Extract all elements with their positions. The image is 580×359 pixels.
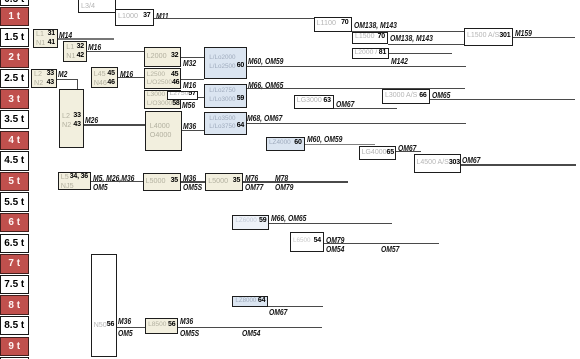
box L2000 32 [144,47,182,67]
box L2500 45 L/O2500 46 [144,68,182,89]
label M142 [391,56,408,66]
label OM5S a [183,182,202,192]
box L3000 A/S 66 [382,89,430,104]
wire M142 timeline [389,53,452,54]
box L8500 56 [145,318,178,335]
label OM67 b [398,143,416,153]
wire M68 OM67 timeline [247,123,466,124]
box L5000 35 a [143,173,182,192]
wire OM79 OM54 timeline [324,243,439,244]
box L45 45 N46 46 [91,67,118,88]
label OM77 [245,182,263,192]
box L1500 70 [352,32,388,44]
label OM54 a [326,244,344,254]
box L/Lo3500 L/Lo3750 64 [204,112,246,135]
tonnage label 1.5 t [0,28,29,47]
wire M60 OM59 a timeline [247,66,466,67]
box L1 32 N1 42 [63,41,87,62]
label M159 [515,28,532,38]
label M16 b [120,69,133,79]
box LG4000 65 [359,146,397,160]
wire LZ8000 timeline [268,306,322,307]
tonnage label 9.5 t [0,357,29,359]
wire M36 OM5S timeline [178,327,322,328]
wire M11 timeline [154,18,314,19]
wire M16 a timeline [87,51,144,52]
wire M66 OM65 b timeline [269,223,391,224]
label M56 [182,100,195,110]
tonnage label 3 t [0,89,29,108]
label M14 [59,30,72,40]
wire L2750 connector [198,97,204,98]
label OM54 b [242,328,260,338]
wire M5 timeline [91,181,143,182]
tonnage label 4 t [0,131,29,150]
label OM138 M143 a [354,20,397,30]
label OM5S b [180,328,199,338]
tonnage label 4.5 t [0,151,29,170]
label OM79 a [275,182,293,192]
wire M159 timeline [513,37,575,38]
wire M32 connector [181,57,204,58]
box LZ8000 64 [232,296,268,307]
wire OM65 b timeline [430,99,575,100]
label M36 d [180,316,193,326]
label M2 [58,69,67,79]
label M76 [245,173,258,183]
box N50 56 tall [91,254,117,357]
box L/Lo2000 L/Lo2500 60 [204,47,246,79]
wire N50 connector [117,327,145,328]
label M66 OM65 a [248,80,283,90]
wire M16 b connector [118,77,144,78]
box L2 33 N2 43 tall [59,89,84,148]
box LZ4000 60 [266,137,305,151]
wire M66 OM65 a timeline [247,88,466,89]
label M66 OM65 b [271,213,306,223]
wire M2 connector v [77,79,78,89]
label OM67 a [336,99,354,109]
box L1 31 N1 41 [33,29,58,48]
box L5 34 36 NJ5 [58,172,91,190]
label OM57 [381,244,399,254]
box L3000 L/O3000 58 [144,90,182,109]
label M36 c [118,316,131,326]
tonnage label 7.5 t [0,275,29,294]
box L4000 O4000 [145,111,182,151]
tonnage label 6.5 t [0,234,29,253]
box LZ6000 59 [232,215,269,230]
label M68 OM67 [247,113,282,123]
box L2000/81 [352,48,390,60]
label OM5 b [118,328,133,338]
wire OM138 M143 b timeline [388,44,464,45]
tonnage label 2 t [0,48,29,67]
label M11 [156,11,169,21]
label OM67 d [269,307,287,317]
label M60 OM59 a [248,56,283,66]
box L/Lo2750 L/Lo3000 59 [204,84,246,108]
label OM65 b [432,90,450,100]
box L1000 37 [115,9,154,26]
tonnage label 1 t [0,7,29,26]
box L5000 35 b [205,173,243,192]
tonnage label 0.5 t partial [0,0,29,6]
tonnage label 8.5 t [0,316,29,335]
label M16 a [88,42,101,52]
label M36 b [183,173,196,183]
box L6500 54 [290,232,324,252]
box L1500 A/S 301 [464,28,513,46]
label M60 OM59 b [307,134,342,144]
label M36 a [183,121,196,131]
tonnage label 5 t [0,172,29,191]
wire M16 c connector [181,79,204,80]
tonnage label 8 t [0,295,29,314]
wire L5000 connector [181,181,205,182]
wire M36 a connector [182,130,205,131]
box L4500 A/S 303 [414,154,461,173]
box L3/4 [78,0,116,13]
box L1100 70 [314,17,352,32]
wire OM138 M143 a timeline [352,31,465,32]
tonnage label 7 t [0,254,29,273]
wire M26 connector [84,124,145,125]
tonnage label 5.5 t [0,192,29,211]
wire M76 M78 timeline [243,181,348,182]
label M5 M26 M36 [93,173,134,183]
wire M2 connector h [57,79,78,80]
label M32 [183,58,196,68]
wire OM67 a timeline [334,108,397,109]
wire M14 timeline [58,38,114,39]
wire OM67 c timeline [461,164,576,165]
wire OM67 b timeline [396,151,421,152]
label OM138 M143 b [390,33,433,43]
tonnage label 9 t [0,337,29,356]
box L2750 57 [167,91,199,100]
label OM67 c [462,155,480,165]
label OM5 a [93,182,108,192]
tonnage label 6 t [0,213,29,232]
box LG3000 63 [294,95,334,109]
wire M60 OM59 b timeline [305,144,375,145]
label M16 c [183,80,196,90]
tonnage label 2.5 t [0,69,29,88]
label M78 [275,173,288,183]
label M26 [85,115,98,125]
label OM79 b [326,235,344,245]
box L2 33 N2 43 [31,69,57,88]
tonnage label 3.5 t [0,110,29,129]
